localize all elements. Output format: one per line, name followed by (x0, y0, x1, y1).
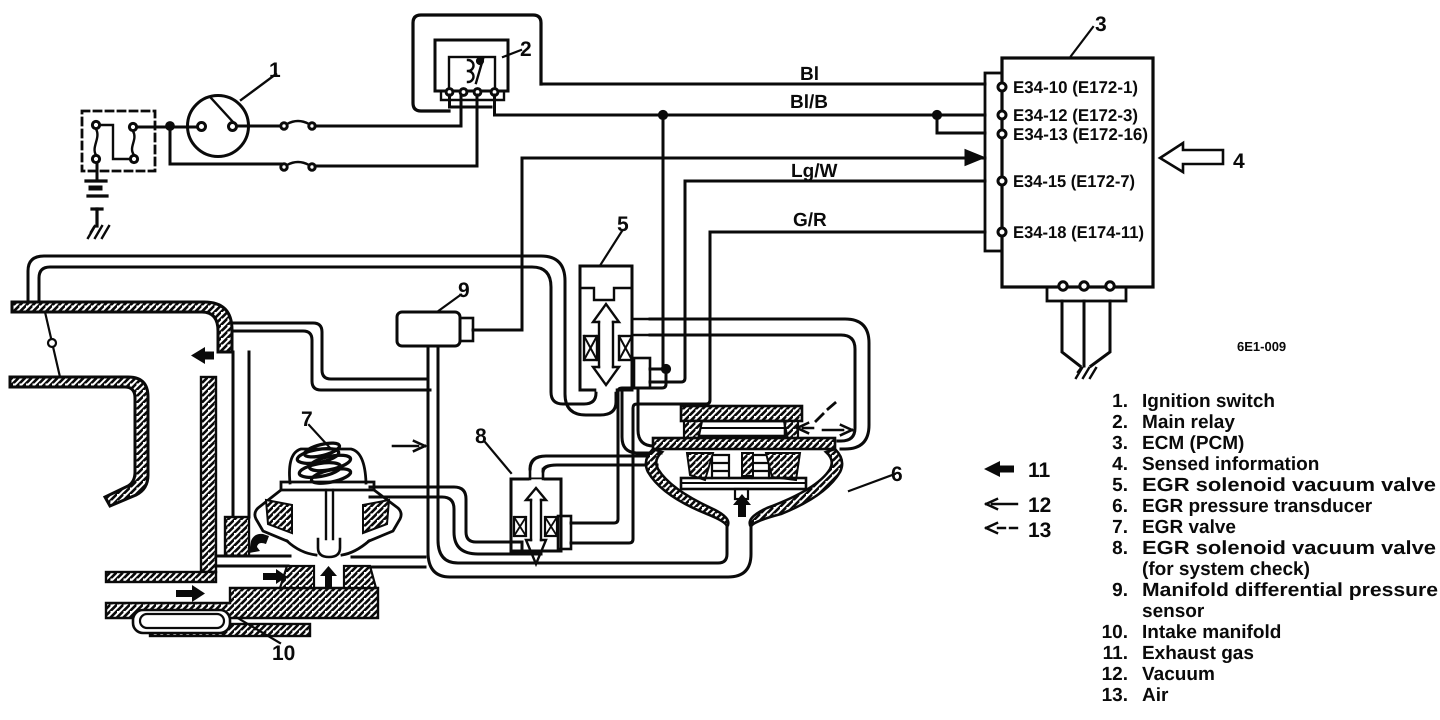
svg-text:11: 11 (1028, 459, 1051, 482)
svg-text:9: 9 (458, 279, 470, 302)
svg-text:E34-12 (E172-3): E34-12 (E172-3) (1013, 106, 1138, 125)
svg-text:1: 1 (269, 59, 281, 82)
svg-text:sensor: sensor (1142, 601, 1205, 622)
svg-text:EGR pressure transducer: EGR pressure transducer (1142, 496, 1373, 517)
svg-text:12.: 12. (1102, 664, 1128, 685)
svg-text:Lg/W: Lg/W (791, 161, 837, 182)
svg-text:Vacuum: Vacuum (1142, 664, 1215, 685)
svg-text:7.: 7. (1112, 517, 1128, 538)
svg-text:Intake manifold: Intake manifold (1142, 622, 1281, 643)
svg-text:Exhaust gas: Exhaust gas (1142, 643, 1254, 664)
svg-text:ECM (PCM): ECM (PCM) (1142, 433, 1244, 454)
svg-text:Sensed information: Sensed information (1142, 454, 1319, 475)
svg-text:E34-18 (E174-11): E34-18 (E174-11) (1013, 223, 1144, 242)
svg-text:6E1-009: 6E1-009 (1237, 339, 1286, 354)
svg-text:6: 6 (891, 463, 903, 486)
svg-text:13: 13 (1028, 519, 1051, 542)
svg-text:(for system check): (for system check) (1142, 559, 1310, 580)
svg-text:EGR solenoid vacuum valve: EGR solenoid vacuum valve (1142, 538, 1436, 559)
svg-text:8.: 8. (1112, 538, 1128, 559)
svg-text:8: 8 (475, 425, 487, 448)
svg-text:1.: 1. (1112, 391, 1128, 412)
svg-text:Bl: Bl (800, 64, 819, 85)
svg-text:7: 7 (301, 408, 313, 431)
svg-text:10.: 10. (1102, 622, 1128, 643)
svg-text:5: 5 (617, 213, 629, 236)
svg-text:Bl/B: Bl/B (790, 92, 828, 113)
svg-text:10: 10 (272, 642, 295, 665)
svg-text:E34-10 (E172-1): E34-10 (E172-1) (1013, 78, 1138, 97)
svg-text:12: 12 (1028, 494, 1051, 517)
svg-text:6.: 6. (1112, 496, 1128, 517)
svg-text:Air: Air (1142, 685, 1169, 706)
svg-text:Ignition switch: Ignition switch (1142, 391, 1275, 412)
svg-text:G/R: G/R (793, 210, 827, 231)
svg-text:9.: 9. (1112, 580, 1128, 601)
svg-text:Manifold differential pressure: Manifold differential pressure (1142, 580, 1438, 601)
svg-text:13.: 13. (1102, 685, 1128, 706)
svg-text:E34-15 (E172-7): E34-15 (E172-7) (1013, 172, 1135, 191)
svg-text:E34-13 (E172-16): E34-13 (E172-16) (1013, 125, 1148, 144)
svg-text:3: 3 (1095, 13, 1107, 36)
svg-text:3.: 3. (1112, 433, 1128, 454)
svg-text:Main relay: Main relay (1142, 412, 1235, 433)
svg-text:2.: 2. (1112, 412, 1128, 433)
svg-text:EGR solenoid vacuum valve: EGR solenoid vacuum valve (1142, 475, 1436, 496)
svg-text:5.: 5. (1112, 475, 1128, 496)
svg-text:2: 2 (520, 38, 532, 61)
svg-text:4.: 4. (1112, 454, 1128, 475)
svg-text:EGR valve: EGR valve (1142, 517, 1236, 538)
svg-text:4: 4 (1233, 150, 1245, 173)
svg-text:11.: 11. (1103, 643, 1128, 664)
